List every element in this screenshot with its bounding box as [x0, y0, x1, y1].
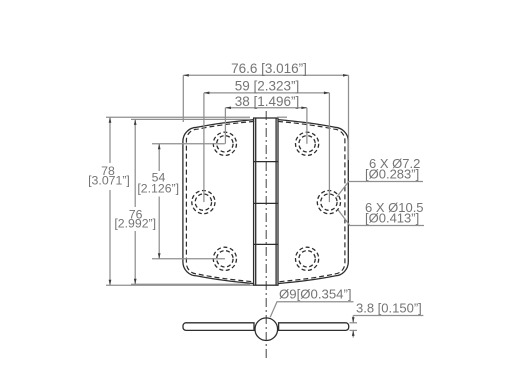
hole mid-right	[317, 191, 340, 214]
bottom view: right leaf bar	[279, 323, 349, 331]
left leaf outline	[183, 120, 254, 284]
hole bottom-left	[213, 247, 236, 270]
svg-text:3.8 [0.150”]: 3.8 [0.150”]	[356, 301, 422, 316]
dimension 59 mid hole spacing	[204, 78, 330, 202]
label D9 with leader	[270, 287, 353, 318]
svg-text:[Ø0.283”]: [Ø0.283”]	[365, 167, 419, 182]
hole bottom-right	[296, 247, 319, 270]
hole top-right	[296, 132, 319, 155]
hole top-left	[213, 132, 236, 155]
bottom view: left leaf bar	[183, 323, 254, 331]
dimension 3.8 leaf thickness	[350, 301, 424, 338]
dimension 78 overall height	[88, 117, 287, 285]
label 6 X D7.2 with leader	[337, 156, 423, 197]
centerline (hinge pin axis)	[265, 111, 267, 358]
hole mid-left	[192, 191, 215, 214]
svg-text:Ø9[Ø0.354”]: Ø9[Ø0.354”]	[279, 287, 352, 302]
right leaf inner dashed outline	[278, 121, 345, 281]
svg-text:[2.992”]: [2.992”]	[114, 216, 156, 230]
dimension 76.6 overall width	[183, 61, 348, 160]
label 6 X D10.5 with leader	[338, 200, 424, 226]
dimension 54 hole spacing vertical	[137, 144, 225, 259]
bottom view: barrel circle	[255, 318, 278, 341]
svg-text:76.6 [3.016”]: 76.6 [3.016”]	[231, 61, 307, 76]
svg-text:[2.126”]: [2.126”]	[137, 182, 179, 196]
dimension 76 leaf height	[114, 119, 250, 284]
svg-text:59 [2.323”]: 59 [2.323”]	[235, 78, 300, 93]
dimension 38 top hole spacing	[225, 94, 307, 144]
barrel (knuckle column)	[254, 118, 278, 285]
svg-text:[3.071”]: [3.071”]	[88, 174, 130, 188]
svg-text:[Ø0.413”]: [Ø0.413”]	[365, 211, 419, 226]
svg-text:38 [1.496”]: 38 [1.496”]	[235, 94, 300, 109]
right leaf outline	[278, 120, 349, 284]
left leaf inner dashed outline	[186, 121, 254, 281]
